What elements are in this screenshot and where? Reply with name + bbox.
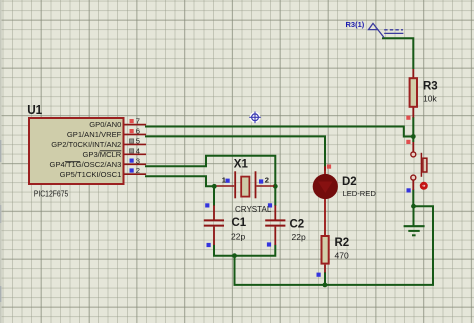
svg-text:GP4/T1G/OSC2/AN3: GP4/T1G/OSC2/AN3 — [50, 160, 122, 169]
svg-text:R2: R2 — [335, 237, 350, 249]
svg-text:4: 4 — [136, 146, 140, 155]
svg-text:GP5/T1CKI/OSC1: GP5/T1CKI/OSC1 — [60, 170, 122, 179]
svg-text:2: 2 — [136, 166, 140, 175]
svg-text:GP2/T0CKI/INT/AN2: GP2/T0CKI/INT/AN2 — [51, 140, 121, 149]
svg-text:3: 3 — [136, 156, 140, 165]
svg-text:470: 470 — [335, 250, 349, 260]
svg-text:PIC12F675: PIC12F675 — [34, 189, 69, 199]
svg-text:6: 6 — [136, 126, 140, 135]
svg-text:2: 2 — [265, 176, 269, 185]
svg-text:22p: 22p — [292, 232, 306, 242]
svg-text:CRYSTAL: CRYSTAL — [235, 205, 272, 214]
svg-text:R3: R3 — [423, 81, 438, 93]
svg-text:10k: 10k — [423, 94, 437, 104]
svg-text:C2: C2 — [290, 219, 305, 231]
svg-text:R3(1): R3(1) — [346, 20, 365, 29]
svg-text:GP1/AN1/VREF: GP1/AN1/VREF — [67, 130, 122, 139]
svg-text:7: 7 — [136, 117, 140, 126]
svg-text:X1: X1 — [234, 159, 249, 171]
svg-text:C1: C1 — [232, 217, 247, 229]
svg-text:D2: D2 — [342, 176, 357, 188]
svg-text:LED-RED: LED-RED — [343, 189, 377, 198]
svg-text:U1: U1 — [27, 103, 42, 117]
svg-text:22p: 22p — [231, 232, 245, 242]
svg-text:GP0/AN0: GP0/AN0 — [89, 120, 121, 129]
svg-text:GP3/MCLR: GP3/MCLR — [82, 150, 121, 159]
svg-text:5: 5 — [136, 136, 140, 145]
